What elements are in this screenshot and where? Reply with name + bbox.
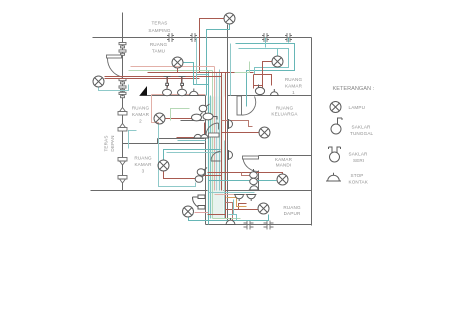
wire red kamar mandi run [208,173,283,175]
corridor wiring wash [208,97,224,219]
saklar S1 ruang tamu [163,77,172,96]
stop kontak SK1 ruang tamu [189,89,200,96]
wire red trunk x=221 [221,73,223,191]
wire teal kamar mandi riser [242,173,250,176]
stop kontak SK5 teras dapur [192,195,205,209]
lamp L6 ruang keluarga [259,127,270,138]
wire teal dapur lamp9 link [195,212,209,214]
wall left vertical x=122 [122,13,124,191]
wire red dapur stub [226,203,233,221]
wire red keluarga riser [222,121,253,127]
fuse symbol on left wall y=176 [118,176,127,184]
wall kamar mandi top y=155 [259,155,312,157]
wire teal lamp teras samping switch [207,25,230,96]
svg-text:SAKLAR: SAKLAR [349,152,369,157]
stop kontak SK9 kamar mandi [249,186,259,190]
wall corridor right x=227.5 [227,25,229,225]
wire red kamar1 drop [254,75,263,89]
door leaf corridor kamar2 [209,133,220,137]
wire red trunk x=225 [225,73,227,219]
svg-text:KAMAR: KAMAR [285,84,303,89]
stop kontak SK6 dapur atas a [234,195,244,202]
door arc teras depan [107,59,122,78]
wire teal trunk x=223.5 [224,141,226,219]
window W on top wall x=288 [285,33,292,42]
fuse symbol on left wall y=93 [119,92,126,97]
stop kontak SK2 kamar1 [270,89,280,96]
fuse symbol on left wall y=80 [119,79,126,84]
wall kamar2 bottom y=138.5 [158,138,205,140]
wire green kamar1 elbow [235,62,250,73]
wall kamar mandi left x=258.5 [258,156,260,191]
wire teal trunk x=209.5 [210,96,212,219]
door arc corridor kamar2 [206,123,219,136]
wall kamar1 bottom y=95.5 [228,95,312,97]
svg-text:SAKLAR: SAKLAR [352,125,372,130]
saklar S5 kamar2 [192,113,203,121]
wire red kamar3 link [203,175,222,177]
wire green dapur run [213,218,241,220]
wire teal bottom run y=192.5 [209,192,255,194]
stop kontak SK7 dapur atas b [246,195,256,202]
wire red tamu switch drop x=181 [181,77,183,88]
svg-text:RUANG: RUANG [132,106,150,111]
door leaf teras depan [107,55,122,58]
wire teal dapur bottom loop [189,215,269,221]
wire teal kamar3 run y=151.5 [167,152,221,154]
door arc kamar mandi [243,159,259,172]
window W on dapur bottom wall x=248 [244,221,254,230]
lamp L10 ruang dapur [258,203,269,214]
svg-text:RUANG: RUANG [276,106,294,111]
wire teal trunk x=207 [208,71,210,225]
svg-text:2: 2 [139,119,142,124]
wall top horizontal y=37 [93,37,312,39]
legend saklar seri symbol [329,147,341,162]
door arc kamar 1 [242,97,256,116]
wire red lamp teras samping feed [200,19,225,73]
door arc corridor kamar3 [211,152,221,162]
saklar S6 kamar2 kanan [203,113,217,120]
wire teal kamar1 inner loop [239,49,289,75]
wire red lamp tamu drop [177,69,179,73]
wire teal window drop x=288 [288,38,290,43]
wire orange dapur [227,198,247,207]
wire teal window drop x=265 [265,38,267,48]
wire teal kamar2 inner run [178,140,206,142]
wire teal window drop tamu [196,38,198,85]
wire red dapur feed [226,197,259,210]
fuse symbol on left wall y=157 [118,158,127,166]
svg-text:KONTAK: KONTAK [349,180,369,185]
stop kontak SK3 corridor kamar2 a [193,134,202,138]
svg-text:KAMAR: KAMAR [134,162,152,167]
wire teal teras lamp drop [99,85,129,91]
lamp L8 kamar mandi [277,174,288,185]
wire teal kamar2 left elbow [129,131,137,149]
wire teal dapur box [229,200,237,221]
wire red teras run y=78.5 [105,78,200,80]
svg-text:KAMAR: KAMAR [275,157,293,162]
wire teal lamp tamu switch loop [183,63,209,85]
svg-text:1: 1 [292,90,295,95]
wire red kamar2 lamp feed [165,118,197,120]
svg-text:SAMPING: SAMPING [148,28,171,33]
stop kontak SK8 dapur bawah [225,218,236,225]
saklar S9 kamar mandi [250,169,258,178]
wire teal kamar1 lamp drop [277,49,279,57]
svg-text:TAMU: TAMU [152,49,165,54]
wire teal kamar1 left riser [230,44,232,96]
svg-text:TERAS: TERAS [151,21,167,26]
fuse symbol on left wall y=128 [118,124,127,132]
wire green kamar2 closet box [171,109,190,121]
svg-text:KETERANGAN :: KETERANGAN : [333,86,375,92]
saklar S3 kamar1 [255,85,264,95]
wire teal kamar3 run y=149 [164,150,221,161]
lamp L3 ruang kamar 1 [272,56,283,67]
legend lamp symbol [330,102,341,113]
stop kontak SK10 corridor wall keluarga [229,119,233,129]
wire red ceiling run y=72 [148,72,254,74]
stop kontak SK4 corridor kamar2 b [200,134,209,138]
wire teal kamar1 outer loop [236,44,295,107]
svg-text:RUANG: RUANG [150,42,168,47]
legend stop kontak symbol [326,173,341,181]
svg-text:RUANG: RUANG [283,205,301,210]
wall interior y=95.5 left [140,95,206,97]
stop kontak SK11 corridor wall keluarga b [229,150,233,160]
lamp L2 ruang tamu [172,57,183,68]
lamp L9 dapur kiri [183,206,194,217]
legend saklar tunggal symbol [331,118,342,134]
saklar S7 kamar3 atas [197,168,207,176]
wire salmon kamar2 stub [152,95,206,127]
window W on top wall x=193 [190,33,197,42]
wire red kamar1 lamp feed [263,62,273,88]
fuse symbol pair on left wall y=44 [119,43,126,48]
saklar S4 kamar2 atas [199,104,209,112]
wire red keluarga lamp feed [222,132,259,134]
wire teal tamu elbow [197,74,209,76]
wire red kamar1 branch [254,75,272,86]
door leaf kamar mandi [243,156,259,159]
fuse symbol pair on left wall y=51 [119,50,126,55]
wire red kamar3 lamp drop [164,171,197,179]
wire red dapur long run [208,214,226,216]
fuse symbol on left wall y=87 [119,86,126,91]
wire salmon trunk x=213.5 [214,67,216,191]
svg-text:MANDI: MANDI [276,163,292,168]
svg-text:3: 3 [142,169,145,174]
wire salmon bottom run y=194.5 [215,194,255,196]
svg-text:TERAS: TERAS [104,135,109,151]
window W on top wall x=170 [167,33,174,42]
label teras depan (rotated) [104,135,116,151]
lamp L4 teras depan [93,76,104,87]
svg-text:KELUARGA: KELUARGA [271,112,298,117]
lamp L5 ruang kamar 2 [154,113,165,124]
MCB panel black triangle [140,86,148,96]
svg-text:SERI: SERI [353,158,364,163]
wire lightblue trunk x=215.5 [216,73,218,191]
svg-text:RUANG: RUANG [134,156,152,161]
svg-text:DAPUR: DAPUR [284,211,301,216]
wire green ceiling run y=70 [129,70,213,72]
svg-text:DEPAN: DEPAN [110,135,115,151]
wire red kamar2 box [177,123,205,138]
svg-text:LAMPU: LAMPU [349,105,366,110]
wall stub x=157 [157,139,159,144]
wall kamar3 top y=143.5 [123,143,205,145]
wire salmon ceiling run y=66 [131,66,215,68]
wire teal kamar2 drop [159,125,196,187]
wire teal trunk x=219 [219,70,221,191]
wire red teras run y=75.5 [105,76,222,78]
window W on top wall x=265 [262,33,269,42]
lamp L7 ruang kamar 3 [158,160,169,171]
window W on dapur bottom wall x=268 [264,221,274,230]
wall bottom y=190 [91,190,312,192]
svg-text:STOP: STOP [351,173,364,178]
wire green trunk x=211.5 [212,71,214,219]
svg-text:KAMAR: KAMAR [132,112,150,117]
door leaf kamar 1 [237,96,242,115]
wall dapur bottom y=224.5 [206,224,312,226]
saklar S8 kamar3 [195,175,205,183]
svg-text:RUANG: RUANG [285,77,303,82]
wire red tamu switch drop x=167 [167,77,169,88]
saklar S2 ruang tamu [178,77,187,96]
svg-text:TUNGGAL: TUNGGAL [350,131,374,136]
wall right vertical x=311 [311,38,313,226]
wall kamar2 closet y=120 [181,120,205,122]
wire teal kamar mandi lamp feed [209,180,277,182]
wall corridor left x=205 [205,96,207,225]
lamp L1 teras samping [224,13,235,24]
saklar S10 kamar mandi bawah [250,178,259,185]
corridor wash upper [216,75,226,97]
fuse symbol on left wall y=112 [118,108,127,116]
